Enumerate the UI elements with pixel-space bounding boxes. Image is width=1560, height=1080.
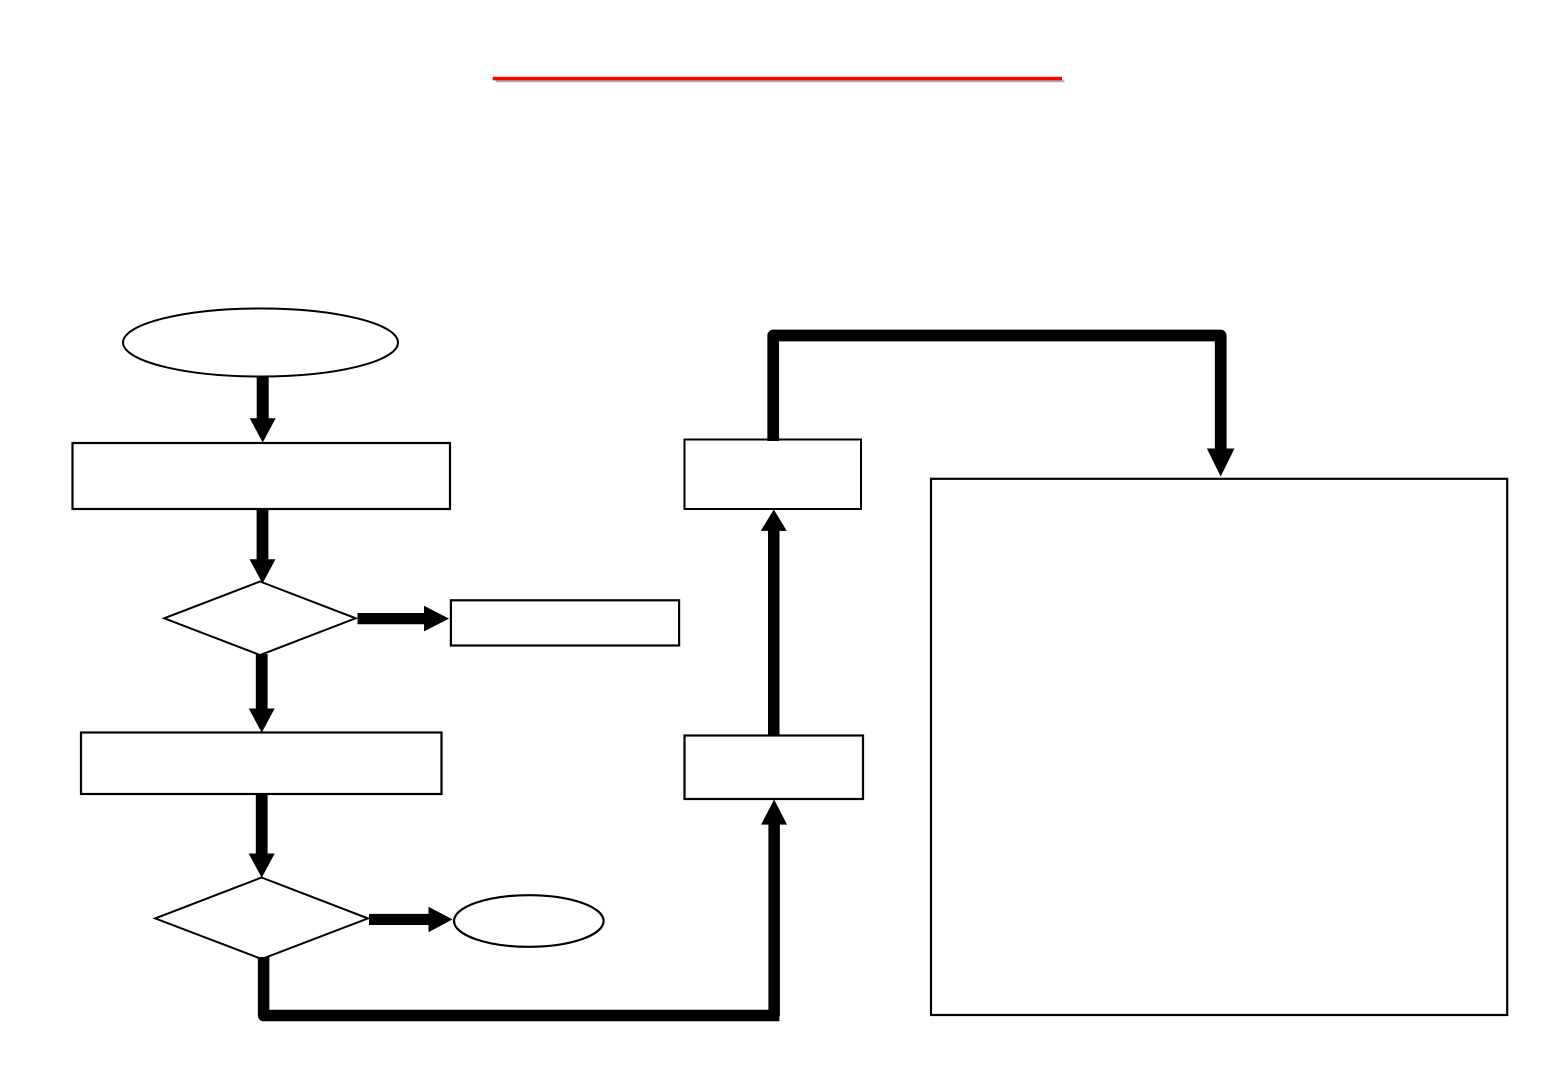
title underline (red) xyxy=(493,77,1062,81)
arrow: middle box lower to middle box upper (up) xyxy=(761,510,787,736)
decision diamond 1 xyxy=(164,582,356,656)
arrow: bottom line up to middle box lower xyxy=(761,800,787,1017)
arrow: diamond 2 to end ellipse (right) xyxy=(369,907,453,933)
middle box lower xyxy=(685,736,864,800)
arrow: box 2 to diamond 2 (down) xyxy=(249,794,275,878)
arrow: box 1 to diamond 1 (down) xyxy=(250,509,276,584)
side box 1 (right of diamond 1) xyxy=(451,600,679,645)
arrow: diamond 1 to box 2 (down) xyxy=(249,654,275,733)
process box 1 xyxy=(73,443,451,509)
arrow: ellipse to box 1 (down) xyxy=(250,376,276,443)
decision diamond 2 xyxy=(155,878,368,960)
title underline shadow xyxy=(496,80,1065,82)
start ellipse xyxy=(123,309,398,377)
arrowhead into large box xyxy=(1207,449,1235,477)
process box 2 xyxy=(81,733,442,795)
end ellipse (right of diamond 2) xyxy=(454,895,604,947)
feedback line: middle box upper, up right and down to large box xyxy=(773,336,1220,451)
arrow: diamond 1 to side box 1 (right) xyxy=(358,606,450,632)
middle box upper xyxy=(685,440,862,510)
feedback line: diamond 2 bottom, down then right xyxy=(264,957,780,1016)
large box right xyxy=(931,479,1507,1015)
